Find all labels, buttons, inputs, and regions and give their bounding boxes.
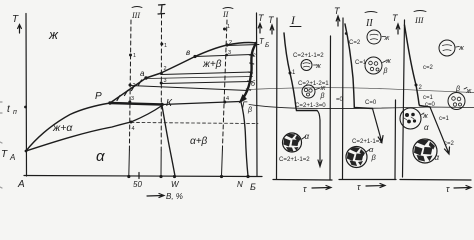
point W on axis: [173, 175, 176, 178]
svg-text:β: β: [371, 153, 377, 162]
panel II text C=2+1-1=2: [352, 138, 383, 145]
panel II cooling curve: [345, 24, 373, 109]
panel III title: [414, 15, 425, 25]
alloy III label: [131, 11, 140, 20]
label Б (component B): [250, 182, 256, 192]
panel I text C=2+1-2=1: [298, 80, 329, 87]
panel I text C=2+1-3=0: [295, 102, 326, 109]
long guide line to cooling panels: [249, 105, 474, 109]
panel III curve point 2: [415, 84, 418, 87]
svg-text:α: α: [424, 123, 429, 132]
panel I end arrow: [317, 111, 322, 167]
svg-text:A: A: [17, 179, 25, 190]
svg-text:II: II: [365, 18, 373, 29]
tie line a to solidus: [146, 77, 253, 79]
svg-text:P: P: [95, 91, 102, 102]
right axis of phase diagram: [256, 13, 259, 176]
alloy line II dashed: [222, 20, 227, 150]
label б on solidus: [251, 80, 256, 88]
svg-text:4: 4: [226, 96, 229, 102]
label T_A with dot: [1, 149, 15, 162]
tie line 2(III) long: [130, 86, 248, 91]
svg-text:α+β: α+β: [190, 136, 208, 147]
panel I text C=2+1-1=2: [293, 52, 324, 59]
svg-text:Б: Б: [265, 42, 269, 49]
alloy II label: [222, 10, 229, 19]
label c on solidus: [253, 52, 257, 59]
svg-text:ж: ж: [48, 27, 59, 42]
label t_п with dot: [7, 104, 17, 116]
svg-text:α: α: [305, 132, 310, 141]
panel II texts C=0: [336, 97, 344, 103]
panel II text C=2: [349, 40, 361, 46]
svg-text:α: α: [435, 153, 440, 162]
svg-text:1: 1: [133, 53, 136, 59]
panel I grain sketch alpha: [283, 133, 302, 152]
alloy I points: [160, 43, 163, 46]
svg-text:T: T: [12, 14, 19, 25]
point K: [160, 103, 164, 107]
panel III peritectic circle sketch: [400, 108, 421, 129]
alloy II points: [223, 28, 226, 31]
panel III cooling curve: [405, 25, 431, 107]
bold solidus T_B to Г with arrow: [244, 43, 257, 98]
region label ж+β: [202, 59, 222, 70]
label Г_beta: [242, 100, 252, 114]
panel I title: [290, 13, 296, 27]
label ж (liquid region): [48, 27, 59, 42]
alloy line III dashed: [129, 20, 131, 150]
alloy I label: [158, 5, 165, 15]
svg-text:C=2+1-1=2: C=2+1-1=2: [352, 138, 383, 145]
panel II liquid+beta circle sketch: [365, 57, 382, 74]
panel III bottom axis: [400, 179, 471, 182]
svg-text:ж+β: ж+β: [202, 59, 222, 70]
svg-text:c=1: c=1: [439, 116, 450, 122]
svg-text:β: β: [383, 68, 388, 75]
point N on axis: [246, 175, 249, 178]
panel II bottom axis: [339, 179, 396, 181]
tie line 2(I) to solidus: [161, 72, 252, 75]
panel III tau axis label: [446, 184, 450, 194]
svg-text:c=2: c=2: [444, 141, 455, 147]
panel I bottom axis: [273, 179, 332, 182]
svg-text:β: β: [455, 86, 460, 93]
left temperature axis: [25, 14, 28, 177]
svg-text:в: в: [186, 48, 190, 57]
point 4 on solidus (alloy III): [130, 121, 133, 124]
svg-text:4: 4: [132, 126, 135, 132]
tie line from 2(II) to axis: [227, 45, 259, 46]
peritectic line P-K bold: [110, 103, 162, 105]
alloy III points 1-4: [129, 54, 132, 57]
svg-text:п: п: [13, 109, 17, 116]
svg-text:2: 2: [164, 66, 167, 72]
svg-text:3: 3: [131, 96, 134, 102]
svg-text:c=1: c=1: [423, 95, 434, 101]
panel I temperature axis: [276, 18, 279, 179]
region label ж+α: [52, 122, 73, 134]
svg-text:1: 1: [227, 24, 230, 30]
point в on liquidus: [193, 55, 196, 58]
panel II grain sketch alpha+beta: [346, 147, 367, 168]
svg-text:C=2: C=2: [349, 40, 361, 46]
panel II title: [365, 18, 373, 29]
svg-text:=0: =0: [336, 97, 344, 103]
panel I liquid circle sketch: [301, 60, 312, 71]
solvus Г to N: [241, 102, 248, 176]
liquidus curve T_A to P: [26, 103, 110, 151]
panel III temperature axis: [403, 20, 405, 177]
svg-text:C=2+1-1=2: C=2+1-1=2: [293, 52, 324, 59]
svg-text:C=2+1-3=0: C=2+1-3=0: [295, 102, 326, 109]
svg-text:III: III: [414, 15, 425, 25]
left axis up arrow: [18, 25, 22, 34]
panel III end arrow: [430, 107, 450, 154]
panel II end arrow: [373, 109, 384, 143]
tie line 2(III) faint continuation across panels: [248, 88, 474, 93]
alloy line I dashed: [160, 14, 162, 150]
bottom concentration axis: [24, 176, 262, 177]
panel III text c=2 lower: [444, 141, 455, 147]
panel III grain sketch alpha: [413, 139, 437, 163]
left axis T label: [12, 14, 19, 25]
svg-text:1: 1: [164, 43, 167, 49]
svg-text:α: α: [96, 148, 105, 165]
svg-text:ж+α: ж+α: [52, 122, 73, 134]
panel III liquid+beta circle sketch: [448, 93, 465, 110]
panel III liquid circle sketch: [439, 40, 455, 56]
region label α+β: [190, 136, 208, 147]
point a: [144, 76, 147, 79]
svg-text:Б: Б: [250, 182, 256, 192]
svg-text:А: А: [9, 153, 15, 162]
svg-text:C=0: C=0: [365, 100, 377, 106]
panel III small labels c=1 c=0: [423, 95, 434, 101]
panel I curve point 1: [289, 72, 292, 75]
svg-text:II: II: [222, 10, 229, 19]
axis legend arrow В,%: [147, 194, 164, 198]
liquidus segment P to a with hatch ticks: [110, 78, 146, 103]
svg-text:50: 50: [133, 180, 142, 189]
panel I cooling curve: [284, 33, 317, 111]
svg-text:III: III: [131, 11, 140, 20]
svg-text:β: β: [247, 107, 252, 114]
svg-text:В, %: В, %: [166, 192, 183, 201]
panel II text C=1: [355, 60, 367, 66]
panel II liquid circle sketch: [367, 30, 381, 44]
svg-text:N: N: [237, 180, 243, 189]
left edge smudges: [0, 102, 2, 188]
point P: [108, 101, 111, 104]
label A (component): [17, 179, 25, 190]
panel II right border: [394, 100, 397, 180]
tie line в to c: [195, 55, 252, 57]
peritectic line K to Г: [162, 102, 240, 105]
panel I liquid+beta circle sketch: [302, 85, 315, 98]
region label α: [96, 148, 105, 165]
panel I right border: [329, 36, 332, 180]
panel I text bottom C=2+1-1=2: [279, 156, 310, 163]
label T_Б: [259, 37, 269, 49]
panel I tau axis label: [303, 184, 307, 194]
tie line 3(I) to б: [161, 82, 250, 84]
solvus K to W: [162, 106, 175, 177]
svg-text:c=2: c=2: [423, 65, 434, 71]
svg-text:β: β: [320, 93, 325, 100]
dashed tie line at point 4 level: [131, 123, 258, 124]
svg-text:T: T: [1, 149, 8, 160]
panel III text c=1 right: [439, 116, 450, 122]
solidus curve T_A to K: [26, 106, 162, 152]
tick marks on bold solidus: [246, 55, 254, 90]
panel II temperature axis: [342, 18, 345, 179]
panel III text c=2: [423, 65, 434, 71]
tick 50 on bottom axis: [138, 173, 140, 179]
panel II tau axis label: [357, 182, 361, 192]
svg-text:a: a: [140, 69, 145, 78]
liquidus curve a to T_B: [146, 43, 256, 78]
svg-text:C=2+1-1=2: C=2+1-1=2: [279, 156, 310, 163]
right axis T label and arrow: [258, 13, 265, 23]
svg-text:c=0: c=0: [425, 102, 436, 108]
